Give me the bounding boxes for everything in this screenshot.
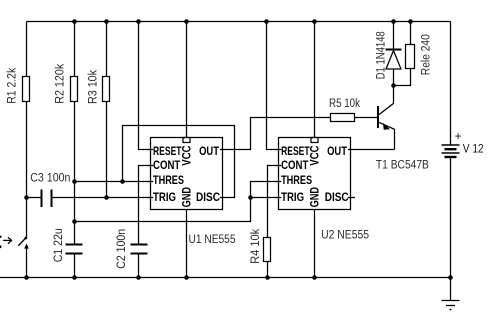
- svg-text:CONT: CONT: [153, 160, 180, 172]
- svg-text:T1 BC547B: T1 BC547B: [376, 160, 429, 172]
- svg-text:D1 1N4148: D1 1N4148: [376, 31, 388, 79]
- svg-text:RESET: RESET: [281, 146, 310, 158]
- svg-text:R2 120k: R2 120k: [55, 64, 67, 104]
- svg-text:U2 NE555: U2 NE555: [321, 229, 369, 241]
- svg-text:DISC: DISC: [325, 192, 349, 204]
- svg-text:+: +: [455, 131, 462, 143]
- svg-text:R3 10k: R3 10k: [88, 70, 100, 104]
- svg-text:R5 10k: R5 10k: [329, 98, 360, 110]
- svg-text:GND: GND: [181, 187, 193, 207]
- svg-text:OUT: OUT: [199, 146, 219, 158]
- svg-text:OUT: OUT: [327, 146, 347, 158]
- svg-text:CONT: CONT: [281, 160, 308, 172]
- svg-text:V 12: V 12: [463, 143, 484, 155]
- svg-text:R1 2.2k: R1 2.2k: [7, 68, 19, 104]
- svg-text:C3 100n: C3 100n: [30, 173, 70, 185]
- svg-text:DISC: DISC: [196, 192, 220, 204]
- svg-text:U1 NE555: U1 NE555: [189, 234, 236, 246]
- svg-text:VCC: VCC: [181, 145, 193, 165]
- svg-text:THRES: THRES: [281, 175, 312, 187]
- svg-text:GND: GND: [309, 187, 321, 207]
- svg-text:RESET: RESET: [153, 146, 182, 158]
- svg-text:C2 100n: C2 100n: [116, 229, 128, 269]
- svg-text:Rele 240: Rele 240: [420, 34, 432, 75]
- svg-text:TRIG: TRIG: [281, 192, 304, 204]
- svg-text:C1 22u: C1 22u: [53, 228, 65, 262]
- svg-text:TRIG: TRIG: [153, 192, 176, 204]
- svg-text:THRES: THRES: [153, 175, 184, 187]
- svg-text:VCC: VCC: [309, 145, 321, 165]
- svg-text:R4 10k: R4 10k: [250, 229, 262, 264]
